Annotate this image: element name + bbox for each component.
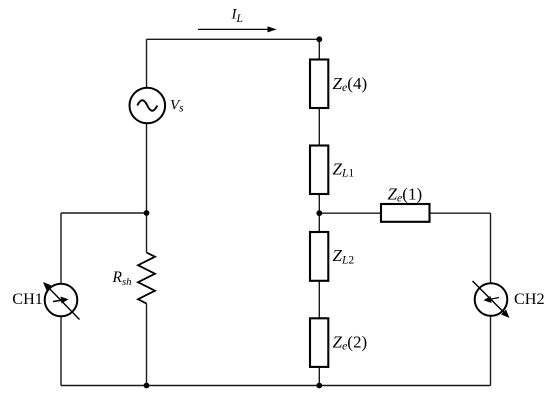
- node middle junction dot: [316, 210, 322, 216]
- impedance Ze4: [310, 60, 328, 109]
- meter CH1: [43, 282, 80, 320]
- impedance Ze2: [310, 318, 328, 367]
- svg-text:Vs: Vs: [170, 98, 184, 115]
- wire bottom horizontal: [61, 385, 491, 387]
- svg-text:CH1: CH1: [12, 290, 43, 308]
- wire left branch Vs to Rsh: [146, 123, 148, 252]
- wire middle branch Ze2 to bottom: [318, 367, 320, 386]
- svg-text:Ze(4): Ze(4): [333, 74, 368, 94]
- wire CH1 tee horizontal: [61, 212, 147, 214]
- wire CH1 branch lower vertical: [60, 316, 62, 385]
- wire middle branch top node to Ze4: [318, 39, 320, 59]
- impedance ZL1: [310, 146, 328, 195]
- node top junction dot: [316, 36, 322, 42]
- svg-text:ZL1: ZL1: [333, 159, 355, 179]
- wire node to Ze1: [319, 212, 381, 214]
- wire CH1 branch upper vertical: [60, 213, 62, 284]
- svg-text:Rsh: Rsh: [112, 269, 132, 288]
- source Vs: [130, 88, 166, 124]
- svg-text:IL: IL: [231, 7, 243, 25]
- svg-text:CH2: CH2: [514, 290, 545, 308]
- svg-text:ZL2: ZL2: [333, 246, 355, 266]
- node bottom-left junction dot: [144, 383, 150, 389]
- wire right branch upper vertical: [490, 213, 492, 283]
- svg-text:Ze(2): Ze(2): [333, 333, 368, 353]
- current arrow IL: [198, 26, 277, 32]
- wire left branch upper (top wire to Vs): [146, 39, 148, 88]
- meter CH2: [473, 281, 510, 318]
- wire middle branch ZL2 to Ze2: [318, 281, 320, 318]
- resistor Rsh: [138, 253, 155, 304]
- svg-text:Ze(1): Ze(1): [388, 185, 423, 205]
- wire Ze1 to right branch: [430, 212, 491, 214]
- wire middle branch Ze4 to ZL1: [318, 108, 320, 146]
- wire left branch Rsh to bottom: [146, 304, 148, 386]
- impedance Ze1: [381, 204, 430, 222]
- impedance ZL2: [310, 232, 328, 281]
- wire right branch lower vertical: [490, 316, 492, 386]
- wire top horizontal: [147, 38, 320, 40]
- wire middle branch ZL1 to node: [318, 194, 320, 213]
- node left junction dot: [144, 210, 150, 216]
- node bottom-middle junction dot: [316, 383, 322, 389]
- wire middle branch node to ZL2: [318, 213, 320, 232]
